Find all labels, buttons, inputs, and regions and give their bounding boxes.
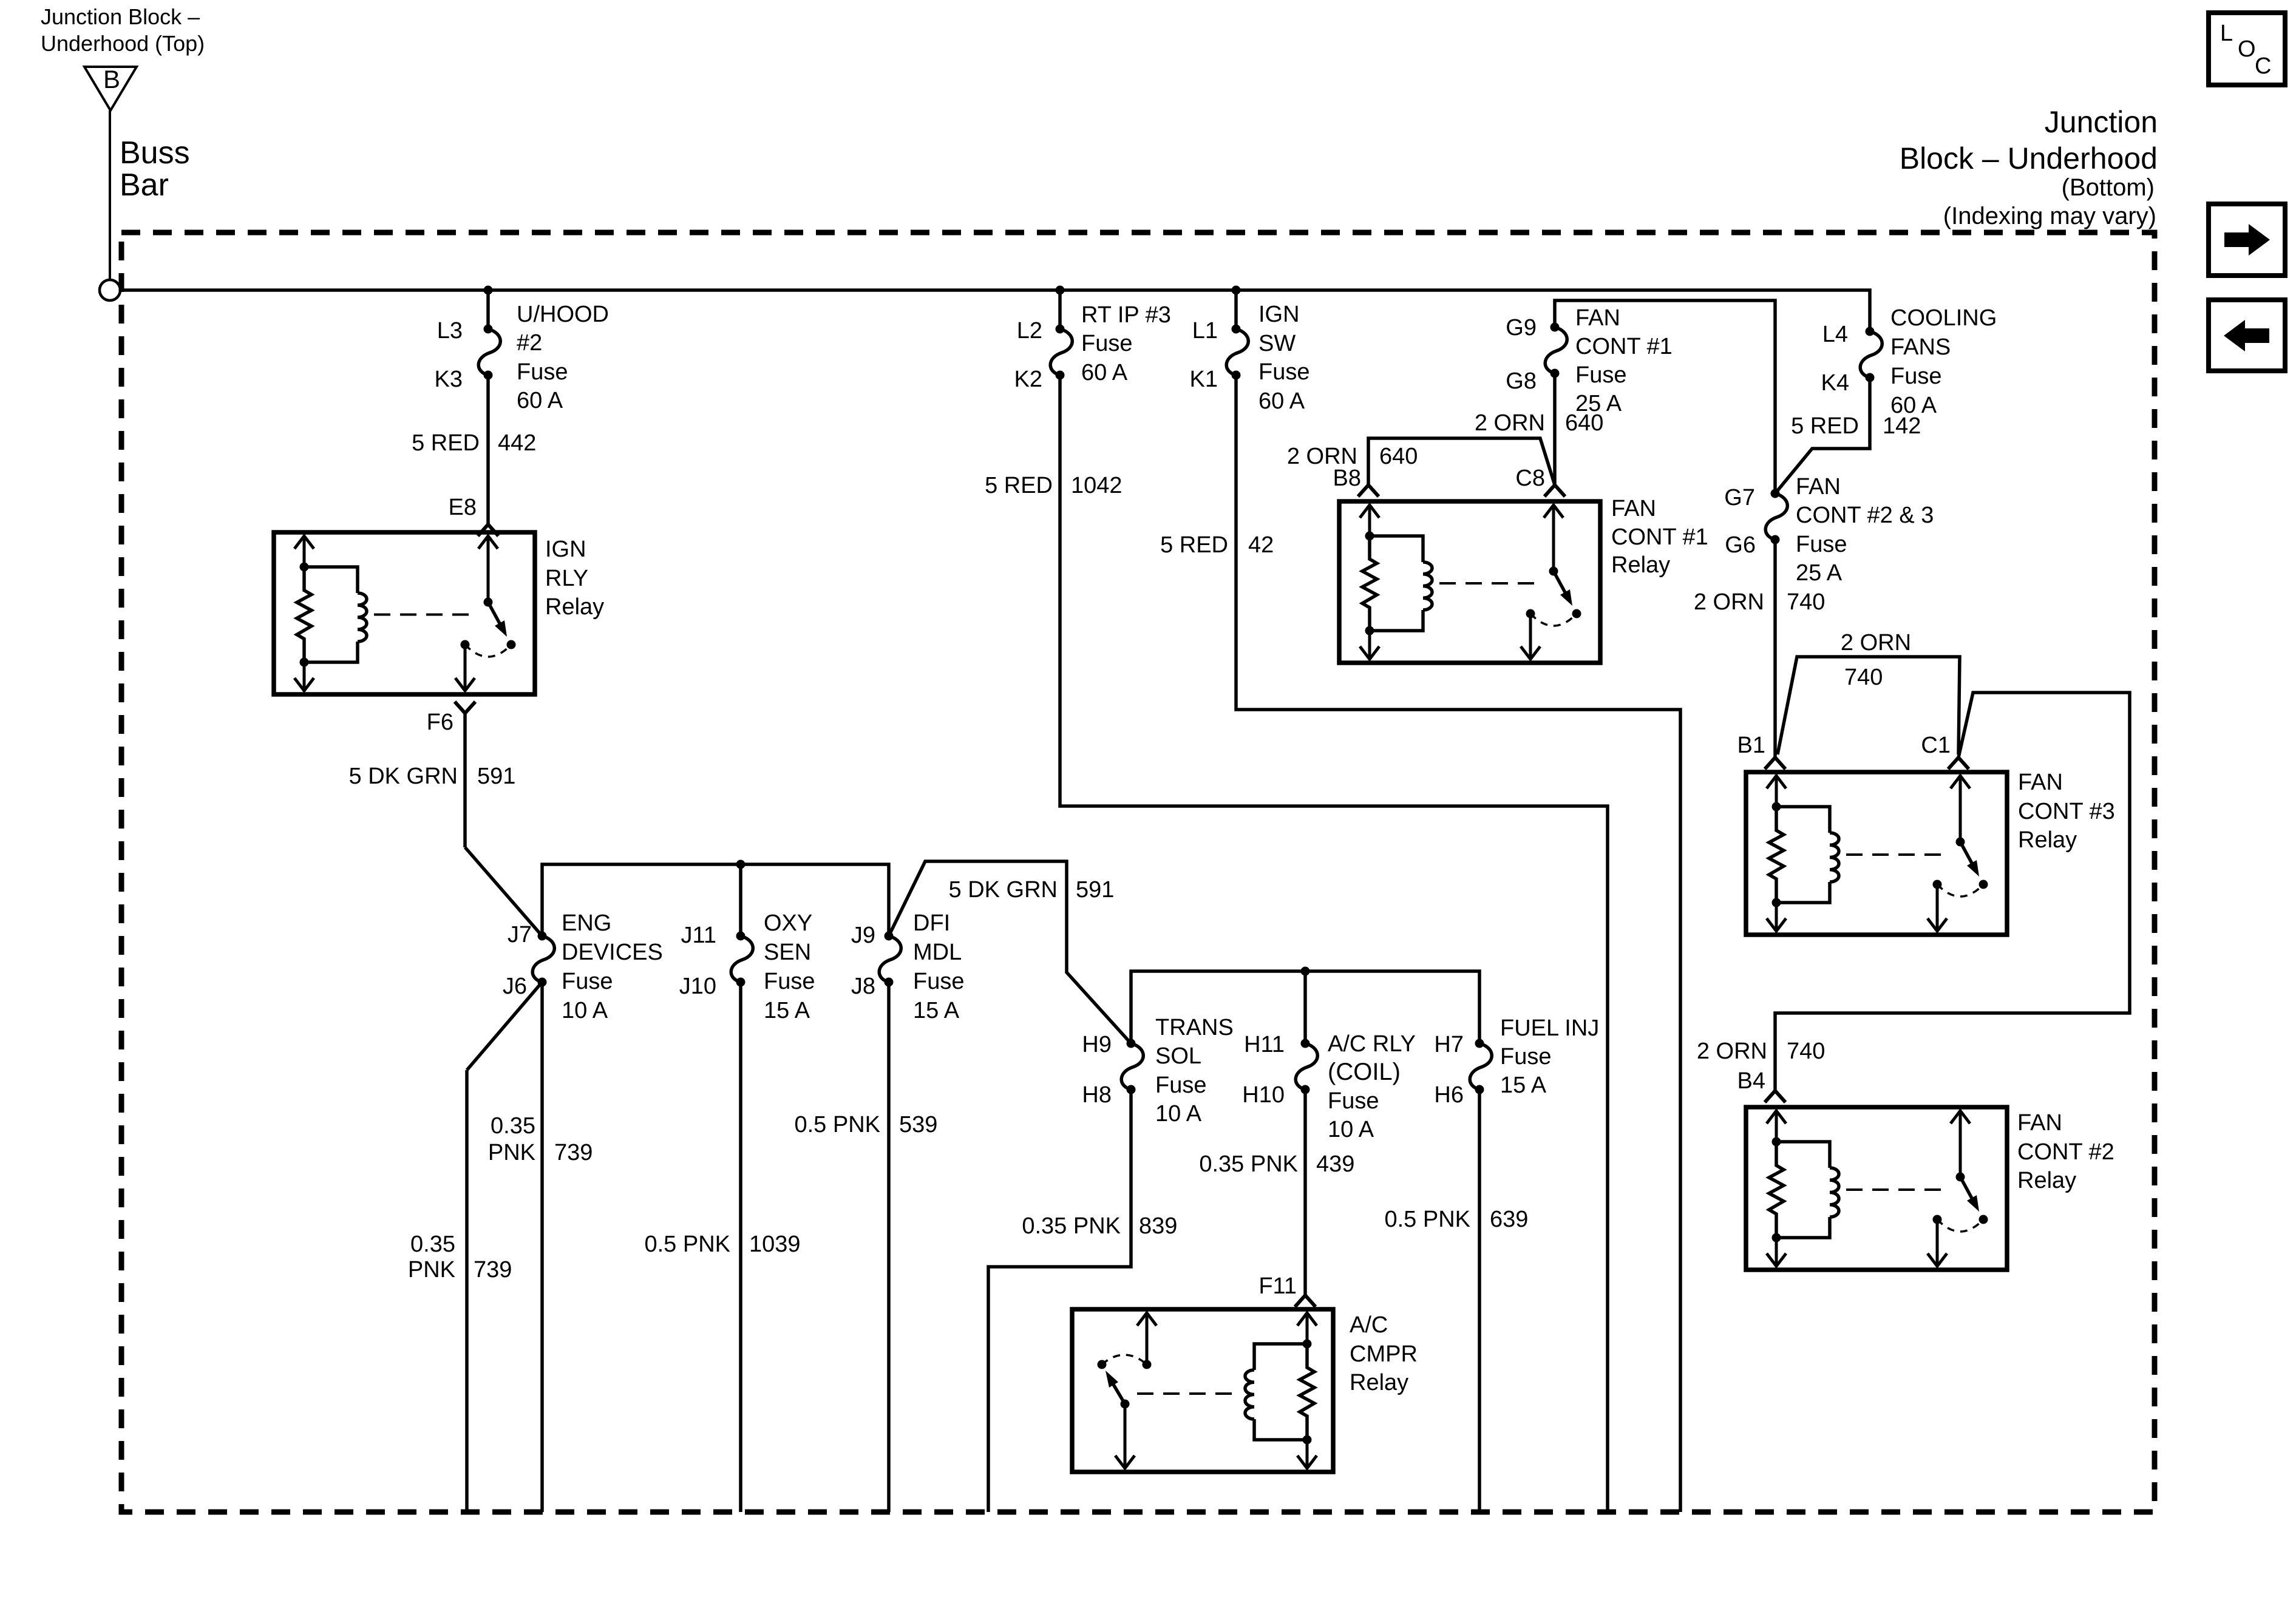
wire J8 down to block edge (circuit 539) (887, 982, 891, 1512)
svg-text:TRANS: TRANS (1155, 1015, 1234, 1040)
relay IGN RLY U1 coil top node (300, 563, 309, 572)
relay FAN CONT #3 K3 box (1746, 772, 2007, 935)
fuse element COOLING FANS (1866, 327, 1875, 336)
svg-text:A/C: A/C (1350, 1312, 1388, 1338)
wire 5 DK GRN 591 branch from J9 to H9 (889, 861, 1131, 1043)
svg-text:SOL: SOL (1155, 1043, 1201, 1069)
svg-text:591: 591 (477, 764, 515, 789)
svg-text:G9: G9 (1506, 315, 1537, 341)
svg-text:0.5 PNK: 0.5 PNK (1384, 1207, 1470, 1232)
svg-text:K4: K4 (1821, 370, 1849, 396)
dashed junction block boundary (121, 232, 2155, 1512)
wire junction down to H11 (1303, 971, 1307, 1043)
svg-text:CONT #1: CONT #1 (1611, 524, 1708, 550)
fuse element U/HOOD #2 (484, 325, 493, 334)
svg-text:RT IP #3: RT IP #3 (1081, 302, 1171, 328)
relay IGN RLY U1 output pin (464, 645, 467, 691)
wire linking fuse G9 and fuse G7 tops (1555, 300, 1775, 493)
svg-text:42: 42 (1248, 532, 1274, 558)
wire K2 down, right, down to block edge (circuit 1042) (1060, 375, 1608, 1512)
fuse element FUEL INJ (1475, 1039, 1484, 1048)
relay A/C CMPR box (1072, 1309, 1333, 1472)
relay A/C CMPR NO contact (1143, 1360, 1152, 1369)
relay FAN CONT #2 K2 resistor (1769, 1142, 1784, 1238)
svg-text:B1: B1 (1737, 733, 1765, 758)
relay A/C CMPR coil bottom node (1303, 1436, 1312, 1445)
svg-text:C8: C8 (1515, 466, 1545, 491)
svg-text:640: 640 (1379, 444, 1418, 469)
svg-text:H9: H9 (1082, 1032, 1112, 1057)
svg-text:#2: #2 (517, 330, 542, 356)
svg-text:Fuse: Fuse (1796, 532, 1847, 557)
fuse element FAN CONT #2 & 3 (1771, 489, 1780, 498)
relay IGN RLY U1 NC contact (461, 640, 470, 649)
LOC legend box (2209, 13, 2285, 85)
svg-text:OXY: OXY (764, 910, 812, 936)
svg-text:DFI: DFI (913, 910, 950, 936)
svg-text:J9: J9 (851, 923, 875, 948)
wire H8 down and left to block edge (circuit 839) (988, 1090, 1131, 1512)
relay IGN RLY U1 coil pin (upper-left arrow) (303, 535, 306, 567)
svg-text:740: 740 (1844, 665, 1883, 690)
svg-text:Fuse: Fuse (1500, 1044, 1551, 1070)
svg-text:F6: F6 (427, 710, 453, 735)
wire buss bar to L1 (1234, 290, 1238, 329)
relay FAN CONT #3 K3 coil top node (1772, 802, 1781, 812)
svg-text:Fuse: Fuse (764, 969, 815, 994)
svg-text:(Bottom): (Bottom) (2062, 174, 2155, 201)
svg-text:L1: L1 (1192, 318, 1218, 344)
relay FAN CONT #2 K2 box (1746, 1107, 2007, 1270)
distribution wire feeding fuses H9, H11, H7 (1131, 971, 1479, 1043)
svg-text:Relay: Relay (1350, 1370, 1408, 1395)
svg-text:10 A: 10 A (1328, 1117, 1374, 1142)
svg-text:O: O (2238, 36, 2256, 62)
relay IGN RLY U1 resistor (297, 567, 311, 662)
svg-text:K2: K2 (1014, 367, 1042, 392)
svg-text:COOLING: COOLING (1890, 305, 1997, 331)
svg-text:K3: K3 (435, 367, 463, 392)
relay IGN RLY U1 switch arm (488, 602, 500, 623)
relay FAN CONT #1 K1 actuation dashed link (1439, 582, 1544, 585)
relay FAN CONT #1 K1 coil bottom node (1365, 626, 1374, 636)
svg-text:J11: J11 (681, 923, 716, 948)
svg-text:439: 439 (1316, 1151, 1354, 1177)
relay FAN CONT #3 K3 NC contact (1933, 880, 1942, 889)
relay FAN CONT #2 K2 NO contact (1979, 1215, 1988, 1224)
svg-text:539: 539 (899, 1112, 937, 1137)
relay FAN CONT #2 K2 actuation dashed link (1846, 1188, 1951, 1191)
svg-text:5 RED: 5 RED (412, 430, 480, 456)
fuse element ENG DEVICES (538, 932, 547, 941)
relay IGN RLY U1 coil pin (lower-left arrow) (303, 662, 306, 691)
connector C8 (1544, 485, 1565, 497)
svg-text:E8: E8 (449, 495, 477, 520)
connector C1 (1948, 758, 1969, 769)
svg-text:FAN: FAN (1796, 474, 1841, 500)
relay FAN CONT #1 K1 resistor (1362, 536, 1377, 631)
svg-text:2 ORN: 2 ORN (1841, 630, 1911, 656)
relay IGN RLY U1 coil bottom node (300, 658, 309, 667)
svg-text:MDL: MDL (913, 940, 962, 965)
svg-text:H10: H10 (1242, 1082, 1285, 1108)
svg-text:Underhood (Top): Underhood (Top) (41, 31, 205, 56)
wire G8 down to connector C8 (circuit 640) (1553, 377, 1557, 485)
svg-text:Fuse: Fuse (1258, 359, 1309, 385)
relay FAN CONT #1 K1 output pin (1529, 614, 1532, 660)
relay A/C CMPR coil top node (1303, 1340, 1312, 1349)
svg-text:U/HOOD: U/HOOD (517, 302, 609, 327)
svg-text:Junction: Junction (2045, 105, 2158, 139)
relay FAN CONT #3 K3 coil winding (1776, 807, 1830, 833)
svg-text:Fuse: Fuse (913, 969, 964, 994)
junction node above fuse J11 (736, 860, 746, 869)
svg-text:1039: 1039 (749, 1232, 801, 1257)
relay FAN CONT #2 K2 coil top node (1772, 1137, 1781, 1147)
relay FAN CONT #1 K1 contact travel dashed arc (1530, 614, 1577, 626)
relay IGN RLY U1 box (274, 532, 535, 694)
relay FAN CONT #1 K1 NC contact (1526, 609, 1535, 619)
wire G6 down to connector B1 (circuit 740) (1773, 541, 1777, 758)
relay IGN RLY U1 coil winding (304, 567, 358, 593)
relay FAN CONT #1 K1 coil pin (lower-left arrow) (1368, 631, 1371, 660)
svg-text:740: 740 (1787, 589, 1825, 615)
svg-text:CONT #2 & 3: CONT #2 & 3 (1796, 503, 1934, 528)
fuse element OXY SEN (736, 932, 746, 941)
fuse element IGN SW (1232, 325, 1241, 334)
relay FAN CONT #2 K2 switch arm (1960, 1177, 1972, 1198)
svg-text:Fuse: Fuse (1328, 1088, 1379, 1114)
svg-text:Fuse: Fuse (562, 969, 613, 994)
relay FAN CONT #2 K2 coil bottom node (1772, 1233, 1781, 1242)
svg-text:591: 591 (1076, 877, 1114, 903)
relay A/C CMPR switch common pin (1124, 1404, 1127, 1469)
svg-text:Fuse: Fuse (1155, 1073, 1206, 1098)
svg-text:2 ORN: 2 ORN (1475, 410, 1545, 436)
connector triangle B to top junction block (84, 67, 137, 110)
svg-text:Fuse: Fuse (1890, 364, 1941, 389)
connector E8 (478, 524, 498, 536)
svg-text:FUEL INJ: FUEL INJ (1500, 1015, 1599, 1041)
svg-text:Relay: Relay (1611, 552, 1670, 578)
svg-text:15 A: 15 A (913, 998, 960, 1023)
svg-text:0.5 PNK: 0.5 PNK (794, 1112, 880, 1137)
wire buss bar to L3 (486, 290, 490, 329)
svg-text:DEVICES: DEVICES (562, 940, 663, 965)
node on buss bar at fuse L1 (1232, 286, 1241, 295)
svg-text:5 RED: 5 RED (1160, 532, 1228, 558)
relay A/C CMPR contact travel dashed arc (1102, 1355, 1147, 1364)
wire H10 down to connector F11 (circuit 439) (1303, 1090, 1307, 1295)
relay A/C CMPR coil winding (1254, 1344, 1307, 1370)
svg-text:G7: G7 (1724, 485, 1755, 510)
wire K1 down, right, down to block edge (circuit 42) (1236, 375, 1680, 1512)
relay FAN CONT #1 K1 coil top node (1365, 532, 1374, 541)
wire buss bar to L2 (1058, 290, 1062, 329)
svg-text:Fuse: Fuse (1575, 362, 1626, 388)
svg-text:640: 640 (1565, 410, 1603, 436)
relay A/C CMPR coil pin (upper-right arrow) (1306, 1312, 1309, 1344)
relay A/C CMPR coil pin (lower-right arrow) (1306, 1440, 1309, 1469)
relay FAN CONT #2 K2 coil winding (1776, 1142, 1830, 1168)
buss bar wire across the top, turning down to fuse L4 (120, 290, 1870, 331)
connector B4 (1765, 1091, 1785, 1102)
svg-text:FANS: FANS (1890, 334, 1951, 360)
svg-text:1042: 1042 (1071, 473, 1123, 498)
relay FAN CONT #3 K3 coil pin (upper-left arrow) (1775, 775, 1778, 807)
svg-text:740: 740 (1787, 1039, 1825, 1064)
wire F6 down (circuit 591) (463, 713, 467, 847)
svg-text:60 A: 60 A (1258, 388, 1305, 414)
relay FAN CONT #3 K3 actuation dashed link (1846, 853, 1951, 856)
svg-text:0.35 PNK: 0.35 PNK (1022, 1213, 1121, 1239)
relay A/C CMPR switch arm (1113, 1385, 1125, 1404)
svg-text:PNK: PNK (488, 1140, 535, 1165)
svg-text:(COIL): (COIL) (1328, 1059, 1401, 1085)
relay FAN CONT #2 K2 NC contact (1933, 1215, 1942, 1224)
svg-text:L3: L3 (437, 318, 463, 344)
connector F6 under IGN RLY relay (455, 702, 475, 713)
svg-text:142: 142 (1883, 413, 1921, 439)
svg-text:IGN: IGN (1258, 302, 1300, 327)
svg-text:SW: SW (1258, 331, 1296, 356)
node on buss bar at fuse L2 (1056, 286, 1065, 295)
svg-text:CMPR: CMPR (1350, 1341, 1418, 1367)
relay FAN CONT #1 K1 NO contact (1572, 609, 1581, 619)
svg-text:G8: G8 (1506, 368, 1537, 394)
svg-text:FAN: FAN (2017, 1110, 2062, 1136)
wire K4 down and over to fuse G7 (circuit 142) (1775, 378, 1870, 493)
svg-text:60 A: 60 A (1081, 360, 1128, 385)
svg-text:739: 739 (474, 1257, 512, 1283)
svg-text:5 DK GRN: 5 DK GRN (949, 877, 1058, 903)
svg-text:A/C RLY: A/C RLY (1328, 1031, 1416, 1057)
relay A/C CMPR switch upper pin (1146, 1312, 1149, 1364)
connector B8 (1358, 485, 1379, 497)
svg-text:H6: H6 (1434, 1082, 1464, 1108)
svg-text:H7: H7 (1434, 1032, 1464, 1057)
svg-text:0.35 PNK: 0.35 PNK (1199, 1151, 1298, 1177)
svg-text:0.5 PNK: 0.5 PNK (644, 1232, 730, 1257)
relay IGN RLY U1 contact travel dashed arc (465, 645, 511, 657)
svg-text:2 ORN: 2 ORN (1694, 589, 1764, 615)
svg-text:Bar: Bar (120, 168, 169, 203)
relay FAN CONT #3 K3 switch arm (1960, 842, 1972, 863)
svg-text:FAN: FAN (2018, 770, 2063, 795)
svg-text:Fuse: Fuse (517, 359, 568, 385)
svg-text:C: C (2255, 53, 2271, 79)
svg-text:B: B (103, 65, 120, 93)
svg-text:Relay: Relay (545, 594, 604, 620)
relay FAN CONT #3 K3 coil pin (lower-left arrow) (1775, 903, 1778, 932)
wire J6 diagonal branch (second 739 feed) (467, 982, 542, 1070)
svg-text:2 ORN: 2 ORN (1697, 1039, 1767, 1064)
svg-text:F11: F11 (1258, 1273, 1297, 1299)
relay FAN CONT #2 K2 switch common pin (1959, 1110, 1962, 1177)
relay FAN CONT #3 K3 NO contact (1979, 880, 1988, 889)
svg-text:60 A: 60 A (517, 388, 563, 413)
relay A/C CMPR switch common node (1121, 1400, 1130, 1409)
relay FAN CONT #1 K1 switch common pin (1552, 504, 1555, 571)
fuse element A/C RLY (COIL) (1301, 1039, 1310, 1048)
connector F11 (1295, 1295, 1316, 1307)
svg-text:H8: H8 (1082, 1082, 1112, 1108)
svg-text:Fuse: Fuse (1081, 331, 1132, 356)
relay FAN CONT #2 K2 contact travel dashed arc (1937, 1219, 1983, 1232)
svg-text:FAN: FAN (1575, 305, 1620, 331)
relay FAN CONT #3 K3 resistor (1769, 807, 1784, 903)
wire H6 down to block edge (circuit 639) (1478, 1090, 1481, 1512)
svg-text:739: 739 (554, 1140, 593, 1165)
svg-text:K1: K1 (1190, 367, 1218, 392)
navigation arrow box (right) (2209, 204, 2285, 276)
svg-text:CONT #1: CONT #1 (1575, 334, 1673, 359)
svg-text:FAN: FAN (1611, 496, 1656, 521)
relay IGN RLY U1 actuation dashed link (374, 614, 478, 616)
svg-text:10 A: 10 A (1155, 1101, 1202, 1127)
svg-text:CONT #3: CONT #3 (2018, 799, 2115, 824)
left arrow glyph (2224, 320, 2269, 351)
wire 739 branch down to block edge (465, 1070, 469, 1512)
svg-text:J10: J10 (679, 974, 716, 999)
relay FAN CONT #2 K2 output pin (1936, 1219, 1939, 1267)
relay FAN CONT #2 K2 coil pin (upper-left arrow) (1775, 1110, 1778, 1142)
svg-text:J6: J6 (503, 974, 527, 999)
svg-text:B8: B8 (1333, 466, 1361, 491)
svg-text:15 A: 15 A (1500, 1073, 1547, 1098)
relay FAN CONT #1 K1 coil winding (1370, 536, 1423, 562)
right arrow glyph (2224, 224, 2270, 256)
fuse element TRANS SOL (1127, 1039, 1136, 1048)
svg-text:RLY: RLY (545, 566, 588, 591)
wire J10 down to block edge (circuit 1039) (739, 982, 742, 1512)
fuse element FAN CONT #1 (1550, 323, 1560, 332)
svg-text:Relay: Relay (2017, 1168, 2076, 1193)
wire junction down to J11 (739, 864, 742, 936)
wire J6 straight down to block edge (circuit 739) (540, 982, 544, 1512)
svg-text:0.35: 0.35 (491, 1113, 535, 1139)
svg-text:J8: J8 (851, 974, 875, 999)
fuse element RT IP #3 (1056, 325, 1065, 334)
wire from triangle B down to buss bar terminal (109, 110, 111, 280)
svg-text:B4: B4 (1737, 1068, 1765, 1094)
svg-text:Relay: Relay (2018, 827, 2077, 853)
connector B1 (1765, 758, 1785, 769)
relay FAN CONT #3 K3 contact travel dashed arc (1937, 884, 1983, 897)
svg-text:10 A: 10 A (562, 998, 608, 1023)
relay A/C CMPR actuation dashed link (1137, 1392, 1238, 1395)
wire K3 down to connector E8 (circuit 442) (486, 375, 490, 524)
relay A/C CMPR NC contact (1098, 1360, 1107, 1369)
label bracket 2 ORN 740 tying B1 and C1 (1778, 657, 1960, 754)
svg-text:Buss: Buss (120, 135, 190, 171)
svg-text:SEN: SEN (764, 940, 811, 965)
svg-text:25 A: 25 A (1796, 560, 1843, 586)
svg-text:15 A: 15 A (764, 998, 810, 1023)
relay IGN RLY U1 switch common pin (487, 535, 490, 602)
navigation arrow box (left) (2209, 300, 2285, 371)
relay FAN CONT #3 K3 coil bottom node (1772, 898, 1781, 907)
wire bridge from C8 over to connector B8 (1368, 438, 1555, 485)
svg-text:(Indexing may vary): (Indexing may vary) (1943, 203, 2156, 229)
buss bar terminal circle (100, 280, 120, 300)
svg-text:0.35: 0.35 (410, 1232, 455, 1257)
svg-text:Block – Underhood: Block – Underhood (1900, 141, 2158, 175)
svg-text:639: 639 (1490, 1207, 1528, 1232)
relay FAN CONT #1 K1 switch arm (1554, 571, 1565, 592)
svg-text:J7: J7 (508, 922, 532, 947)
svg-text:PNK: PNK (408, 1257, 455, 1283)
svg-text:5 RED: 5 RED (1791, 413, 1859, 439)
svg-text:G6: G6 (1725, 532, 1756, 558)
svg-text:CONT #2: CONT #2 (2017, 1139, 2114, 1165)
relay FAN CONT #2 K2 coil pin (lower-left arrow) (1775, 1238, 1778, 1267)
wire diagonal from F6 drop to fuse J7 (465, 847, 542, 936)
svg-text:H11: H11 (1244, 1032, 1285, 1057)
svg-text:5 RED: 5 RED (985, 473, 1053, 498)
svg-text:L4: L4 (1822, 322, 1848, 347)
svg-text:442: 442 (498, 430, 536, 456)
fuse element DFI MDL (885, 932, 894, 941)
node on buss bar at fuse L3 (484, 286, 493, 295)
svg-text:839: 839 (1139, 1213, 1177, 1239)
relay FAN CONT #1 K1 box (1339, 501, 1600, 663)
distribution wire feeding fuses J7, J11, J9 (542, 864, 889, 936)
wire from C1 over and down to connector B4 (circuit 740) (1775, 693, 2130, 1091)
svg-text:5 DK GRN: 5 DK GRN (349, 764, 458, 789)
relay IGN RLY U1 NO contact (507, 640, 516, 649)
svg-text:Junction Block –: Junction Block – (41, 4, 200, 29)
relay FAN CONT #3 K3 output pin (1936, 884, 1939, 932)
svg-text:L: L (2220, 21, 2233, 46)
junction node above fuse H11 (1301, 967, 1310, 976)
svg-text:C1: C1 (1921, 733, 1951, 758)
svg-text:ENG: ENG (562, 910, 611, 936)
svg-text:L2: L2 (1017, 318, 1042, 344)
relay FAN CONT #1 K1 coil pin (upper-left arrow) (1368, 504, 1371, 536)
relay FAN CONT #3 K3 switch common pin (1959, 775, 1962, 842)
svg-text:IGN: IGN (545, 537, 586, 562)
relay A/C CMPR resistor (1300, 1344, 1314, 1440)
